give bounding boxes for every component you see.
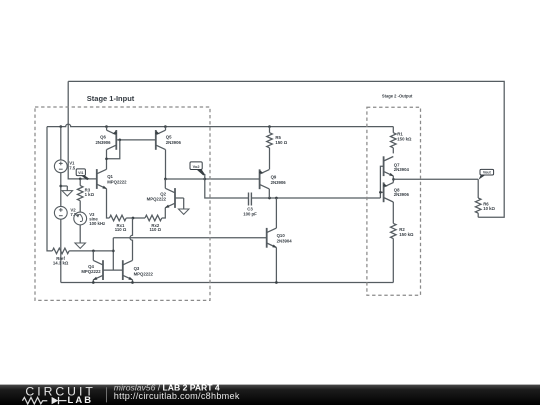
wire upper supply rail y=126.6 with hop over input drop — [47, 124, 393, 127]
node Q5/Q2 collector junction — [164, 178, 167, 181]
svg-text:2N3904: 2N3904 — [277, 239, 293, 244]
label Q7 2N3904 — [394, 162, 410, 172]
wire Q7/Q8 base tie — [380, 166, 383, 198]
label Q3 MPQ2222 — [134, 266, 154, 276]
svg-text:2N3906: 2N3906 — [166, 140, 182, 145]
wire V3 bottom stem — [79, 225, 81, 243]
svg-text:14.3 kΩ: 14.3 kΩ — [53, 260, 69, 265]
wire Q7 emitter to output node — [392, 176, 394, 179]
wire output to Vout — [394, 178, 479, 180]
node Q4 emitter junction — [92, 281, 95, 284]
label Q8 2N3906 — [394, 188, 410, 198]
svg-text:MPQ2222: MPQ2222 — [107, 179, 127, 184]
wire current mirror net — [113, 237, 266, 239]
resistor Rref 14.3 kOhm — [52, 248, 113, 254]
node R5 top junction — [268, 125, 271, 128]
node Q10 emitter junction — [275, 281, 278, 284]
resistor Rx1 110 Ohm — [109, 215, 126, 221]
svg-text:2N3904: 2N3904 — [394, 167, 410, 172]
wire Q8 emitter to output node — [392, 179, 394, 182]
svg-text:2N3906: 2N3906 — [95, 140, 111, 145]
node Q6 collector junction — [105, 157, 108, 160]
svg-text:MPQ2222: MPQ2222 — [147, 197, 167, 202]
footer url text — [114, 391, 240, 401]
wire V1-V2 link — [60, 173, 62, 207]
transistor Q9 2N3906 — [259, 169, 269, 189]
label R3 1 kOhm — [85, 187, 95, 197]
svg-text:Q1: Q1 — [107, 174, 113, 179]
footer CircuitLab logo — [22, 385, 95, 405]
wire left branch down to Rref — [47, 127, 52, 251]
resistor R3 1 kOhm — [77, 179, 83, 212]
wire Q9 collector stub — [268, 189, 270, 198]
label Stage 1-Input — [87, 94, 135, 103]
label Q1 MPQ2222 — [107, 174, 127, 184]
node Q4 collector junction — [92, 250, 95, 253]
label Q5 2N3906 — [166, 135, 182, 145]
label Q9 2N3906 — [271, 175, 287, 185]
voltage source V2 — [54, 206, 67, 219]
svg-text:Q10: Q10 — [277, 233, 286, 238]
label V1 7.5 — [69, 161, 76, 171]
wire top feedback rail — [68, 81, 504, 217]
node output node junction — [392, 178, 395, 181]
svg-text:Vout: Vout — [483, 170, 492, 174]
voltage source V1 — [54, 160, 67, 173]
probe Vo2 box with pointer — [190, 162, 205, 176]
probe VI1 box with pointer — [76, 169, 89, 180]
wire bottom emitter rail — [61, 282, 394, 284]
capacitor C3 100pF — [249, 193, 252, 206]
sine source V3 — [74, 212, 87, 225]
transistor Q10 2N3904 — [267, 228, 278, 249]
stage 2 dashed box — [367, 107, 421, 295]
label Rref 14.3 kOhm — [53, 256, 69, 265]
transistor Q1 MPQ2222 — [97, 169, 108, 190]
label R2 150 kOhm — [399, 227, 414, 237]
resistor R2 150 kOhm — [390, 223, 396, 282]
node Q3 emitter junction — [131, 281, 134, 284]
node tail junction Rx1/Rx2 — [132, 217, 135, 220]
wire Q6 emitter stub — [106, 127, 108, 131]
node ground tap junction — [59, 185, 62, 188]
wire Vout node down to R6 — [477, 179, 479, 198]
wire V2 bottom drop to emitter rail — [60, 219, 62, 282]
svg-text:Q9: Q9 — [271, 175, 277, 180]
wire C3 to output driver bases — [251, 197, 380, 199]
resistor Rx2 110 Ohm — [145, 215, 162, 221]
svg-text:2N3906: 2N3906 — [394, 192, 410, 197]
node Q6 base junction — [118, 139, 121, 142]
resistor R1 150 kOhm — [390, 127, 396, 154]
wire Q4 collector stub — [92, 251, 94, 261]
label Rx1 110 Ohm — [115, 223, 127, 232]
footer bar — [0, 385, 540, 405]
node R3 top junction — [79, 178, 82, 181]
wire Q10 emitter down to rail — [275, 248, 277, 283]
wire Q10 collector up — [275, 198, 277, 228]
svg-text:Q3: Q3 — [134, 266, 140, 271]
wire Q4 emitter stub — [92, 280, 94, 283]
wire mirror tie vertical — [112, 238, 114, 270]
transistor Q8 2N3906 — [383, 182, 393, 202]
wire Vo2 node down and right to C3 — [205, 174, 248, 198]
stage 1 dashed box — [35, 107, 210, 300]
node V1 top junction — [59, 125, 62, 128]
wire input drop from top rail to Q1 base — [68, 81, 97, 178]
svg-text:Stage 1-Input: Stage 1-Input — [87, 94, 135, 103]
wire Q6 collector-base diode link — [107, 140, 120, 159]
wire Q3 collector up to tail with hop — [130, 218, 133, 260]
transistor Q3 MPQ2222 — [123, 260, 134, 281]
wire Q2 emitter down to Rx2 — [162, 208, 166, 218]
transistor Q6 2N3906 — [107, 130, 117, 150]
svg-text:150 kΩ: 150 kΩ — [399, 232, 414, 237]
wire Rx1-Rx2 link — [126, 217, 145, 219]
resistor R6 10 kOhm — [475, 198, 481, 217]
transistor Q4 MPQ2222 — [92, 260, 103, 281]
svg-text:LAB: LAB — [68, 394, 94, 405]
svg-text:7.5: 7.5 — [69, 165, 76, 170]
svg-text:Stage 2 -Output: Stage 2 -Output — [382, 93, 413, 98]
svg-text:VI1: VI1 — [78, 171, 83, 175]
svg-text:150 Ω: 150 Ω — [275, 140, 287, 145]
wire V1 top stem — [60, 127, 62, 160]
footer title text — [114, 382, 220, 392]
svg-text:100 pF: 100 pF — [243, 212, 257, 217]
node Q8 base junction — [379, 191, 382, 194]
node Q10 collector junction — [275, 197, 278, 200]
wire Q3 emitter stub — [132, 280, 134, 283]
ground below V3 — [75, 243, 86, 248]
footer separator — [106, 387, 108, 402]
svg-text:MPQ2222: MPQ2222 — [81, 269, 101, 274]
wire Q8 base stub — [380, 191, 383, 193]
transistor Q7 2N3904 — [384, 156, 395, 177]
label V3 sine 100kHz — [89, 212, 105, 226]
svg-text:1 kΩ: 1 kΩ — [85, 192, 95, 197]
label R5 150 Ohm — [275, 135, 287, 145]
svg-text:http://circuitlab.com/c8hbmek: http://circuitlab.com/c8hbmek — [114, 391, 240, 401]
transistor Q5 2N3906 — [155, 130, 165, 150]
svg-text:110 Ω: 110 Ω — [150, 227, 162, 232]
wire Q1 collector up to mirror node — [106, 159, 108, 170]
wire Q8 collector down to R2 — [392, 202, 394, 223]
label R6 10 kOhm — [483, 201, 495, 211]
wire Q6 base tie to Q5 — [116, 139, 156, 141]
label Stage 2-Output — [382, 93, 413, 98]
label Q6 2N3906 — [95, 135, 111, 145]
wire Q5 collector down to Vo2 node — [165, 150, 167, 179]
label C3 100 pF — [243, 206, 257, 216]
svg-text:110 Ω: 110 Ω — [115, 227, 127, 232]
svg-text:150 kΩ: 150 kΩ — [397, 136, 412, 141]
wire Q1 emitter down to Rx1 — [107, 189, 110, 218]
svg-text:10 kΩ: 10 kΩ — [483, 206, 495, 211]
label Q4 MPQ2222 — [81, 264, 101, 274]
wire Q5 emitter stub — [165, 127, 167, 131]
svg-text:Vo2: Vo2 — [193, 164, 201, 169]
resistor R5 150 Ohm — [267, 127, 273, 170]
wire Q2 collector stub — [164, 179, 166, 188]
label Q2 MPQ2222 — [147, 191, 167, 201]
wire Q6 collector stub — [106, 150, 108, 159]
node Q6 emitter junction — [105, 125, 108, 128]
transistor Q2 MPQ2222 — [164, 188, 175, 209]
node Rref junction on mirror tie — [112, 250, 115, 253]
svg-text:MPQ2222: MPQ2222 — [134, 271, 154, 276]
label R1 150 kOhm — [397, 131, 412, 141]
label Rx2 110 Ohm — [150, 223, 162, 232]
svg-text:100 kHz: 100 kHz — [89, 221, 105, 226]
node Q5 emitter junction — [164, 125, 167, 128]
ground at V1/V2 midpoint — [61, 186, 73, 196]
wire Q4-Q3 base tie — [103, 269, 123, 271]
svg-text:2N3906: 2N3906 — [271, 180, 287, 185]
ground at Q2 base — [175, 198, 189, 214]
svg-text:Q2: Q2 — [160, 191, 166, 196]
probe Vout box with pointer — [479, 169, 494, 179]
label Q10 2N3904 — [277, 233, 293, 243]
node Q9 collector junction — [268, 197, 271, 200]
node Vo2 tap junction — [203, 178, 206, 181]
wire Vo2 net to Q9 base — [165, 178, 259, 180]
label V2 7.5 — [70, 207, 77, 217]
